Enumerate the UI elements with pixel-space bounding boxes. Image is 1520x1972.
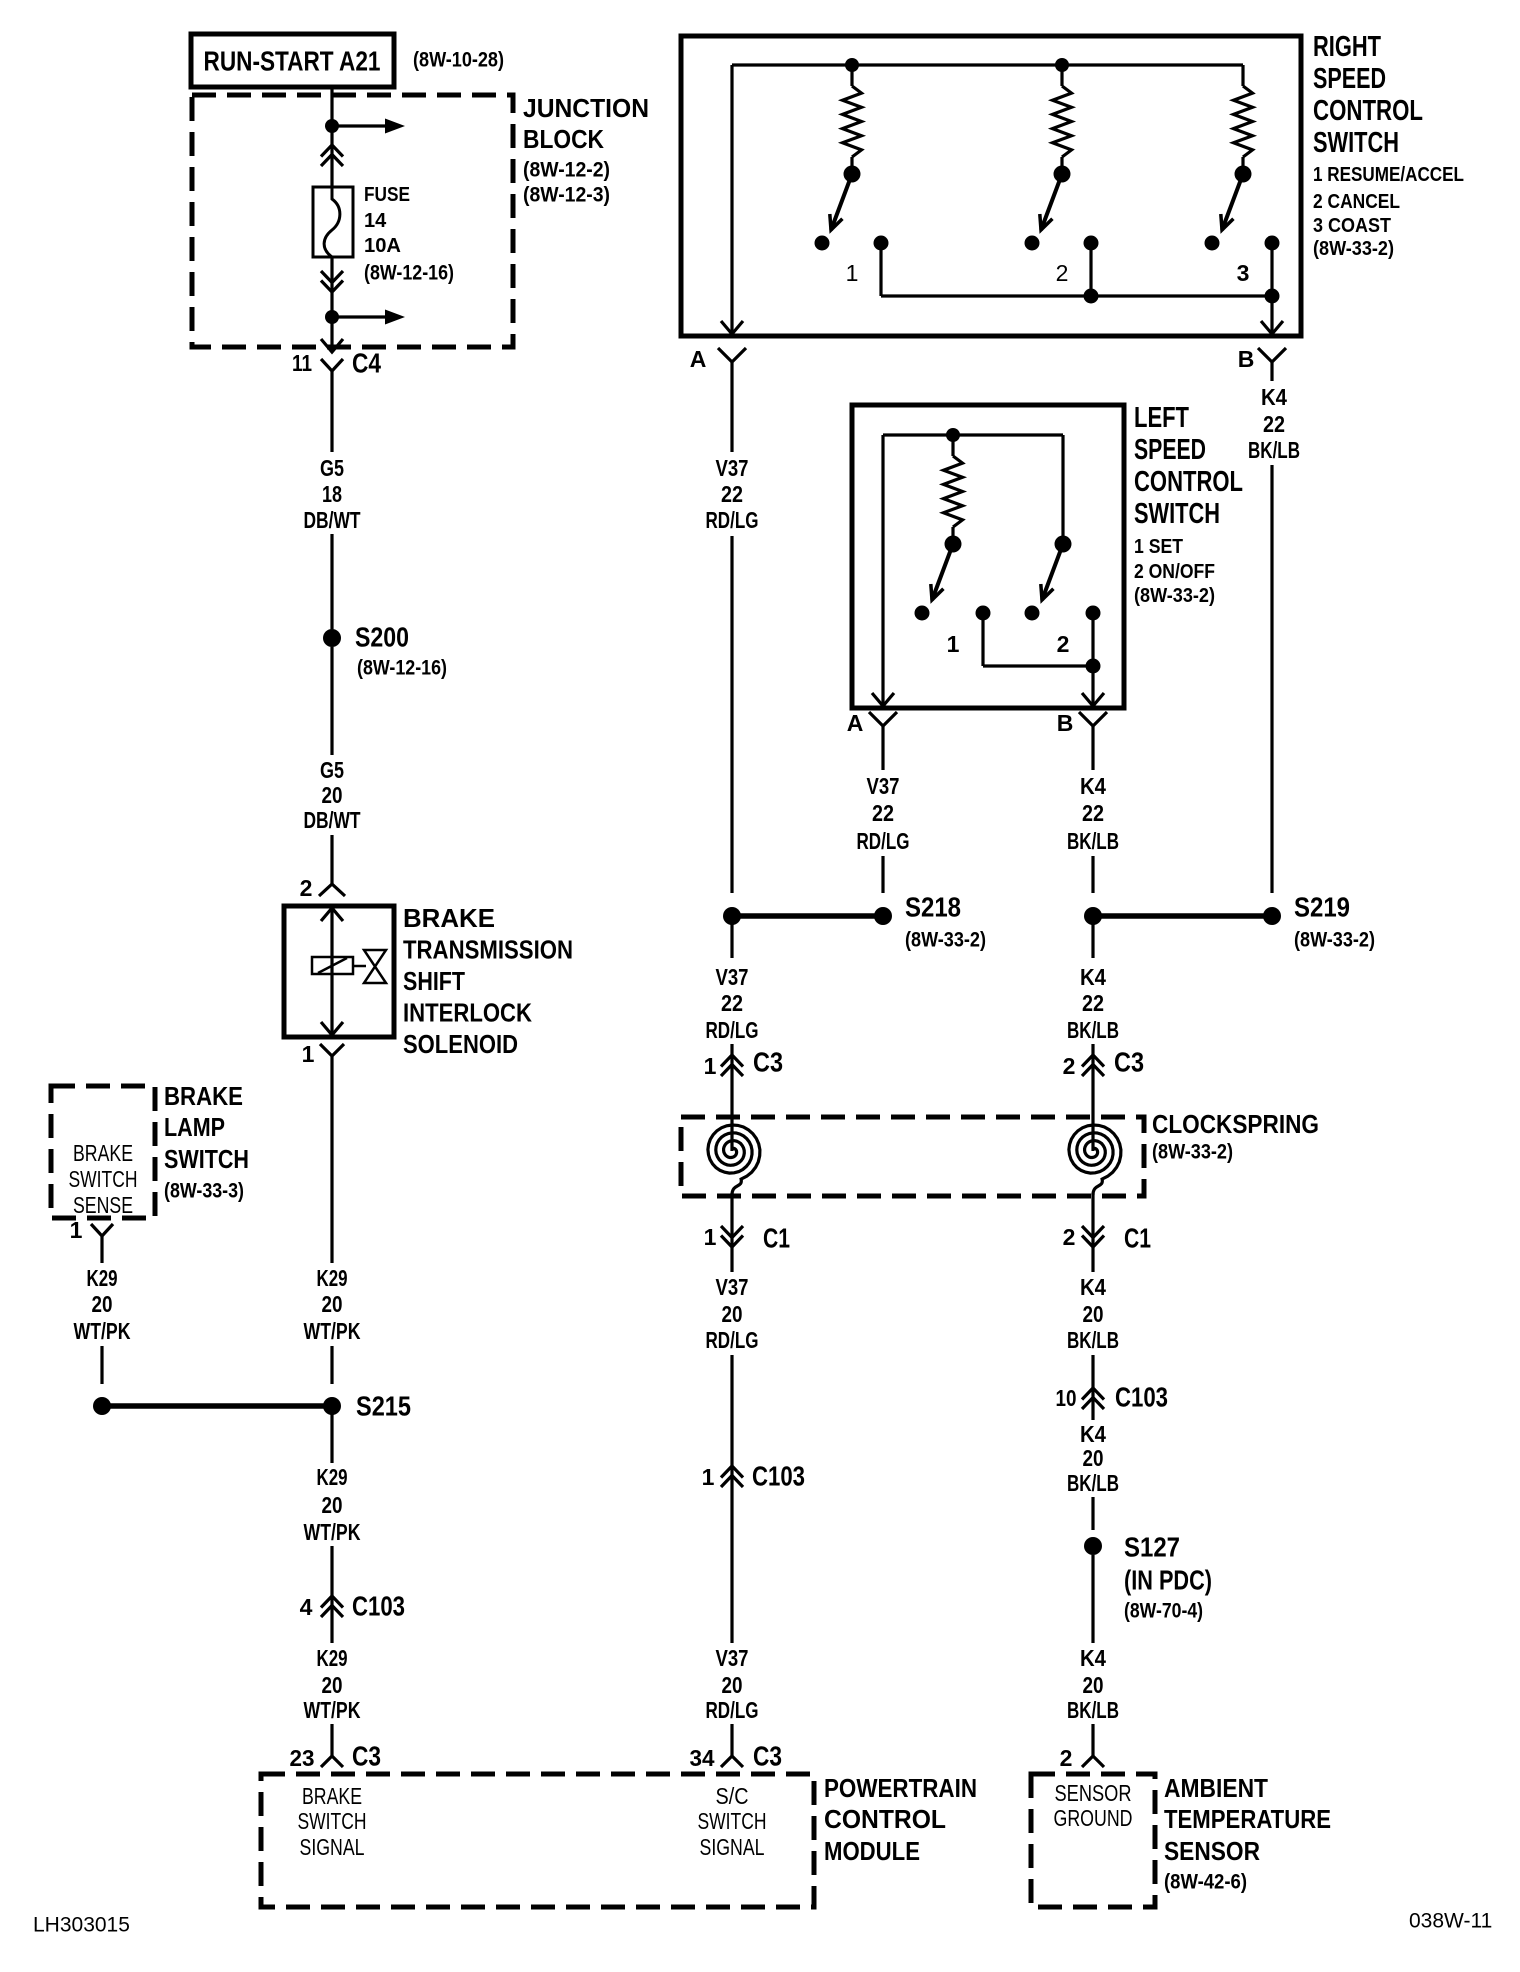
svg-text:BLOCK: BLOCK — [523, 124, 604, 154]
splice S219 — [1084, 907, 1102, 925]
wire — [100, 1254, 103, 1263]
resistor + switch COAST — [1241, 65, 1244, 86]
svg-text:(8W-12-2): (8W-12-2) — [523, 159, 610, 182]
connector box RUN-START A21 — [191, 34, 394, 87]
wire — [100, 1346, 103, 1384]
node: splice below fuse — [325, 310, 339, 324]
svg-text:SHIFT: SHIFT — [403, 966, 465, 996]
wire: right drop to B — [1270, 296, 1273, 334]
svg-text:WT/PK: WT/PK — [304, 1318, 361, 1344]
wire into clockspring coil — [730, 1044, 733, 1151]
svg-text:INTERLOCK: INTERLOCK — [403, 998, 532, 1028]
svg-text:K4: K4 — [1261, 384, 1287, 410]
wire — [1091, 1247, 1094, 1272]
svg-text:2: 2 — [300, 875, 313, 901]
arrow into A (left scs) — [872, 693, 894, 706]
splice S218 — [723, 907, 741, 925]
svg-text:1: 1 — [947, 631, 960, 657]
svg-text:V37: V37 — [716, 455, 749, 481]
svg-text:S215: S215 — [356, 1391, 411, 1422]
svg-text:A: A — [847, 710, 864, 736]
svg-text:K4: K4 — [1080, 1421, 1106, 1447]
svg-text:RUN-START A21: RUN-START A21 — [204, 46, 381, 77]
solenoid internal arrow up — [321, 908, 343, 921]
wire — [330, 534, 333, 629]
wire: coast contact drop — [1270, 243, 1273, 296]
svg-text:BRAKE: BRAKE — [403, 903, 495, 933]
svg-text:C3: C3 — [753, 1741, 782, 1772]
svg-text:BK/LB: BK/LB — [1067, 1017, 1119, 1043]
wire — [730, 916, 733, 958]
svg-text:2: 2 — [1063, 1053, 1076, 1079]
wire from left scs A to S218 — [881, 745, 884, 770]
wire — [330, 1724, 333, 1756]
svg-text:1: 1 — [70, 1217, 83, 1243]
svg-text:K4: K4 — [1080, 964, 1106, 990]
svg-text:C3: C3 — [753, 1047, 783, 1078]
resistor + switch CANCEL — [1055, 58, 1069, 72]
svg-text:20: 20 — [1083, 1301, 1104, 1327]
svg-text:SENSE: SENSE — [73, 1192, 133, 1218]
svg-text:CLOCKSPRING: CLOCKSPRING — [1152, 1109, 1319, 1139]
svg-text:20: 20 — [322, 782, 343, 808]
svg-text:(8W-33-2): (8W-33-2) — [1134, 585, 1215, 607]
svg-text:20: 20 — [92, 1291, 113, 1317]
svg-text:AMBIENT: AMBIENT — [1164, 1773, 1268, 1803]
svg-text:(IN PDC): (IN PDC) — [1124, 1565, 1212, 1596]
svg-text:RD/LG: RD/LG — [706, 1697, 759, 1723]
svg-text:18: 18 — [322, 481, 342, 507]
svg-text:C1: C1 — [1124, 1223, 1151, 1254]
svg-text:BRAKE: BRAKE — [73, 1140, 133, 1166]
svg-text:S219: S219 — [1294, 892, 1350, 923]
svg-text:BK/LB: BK/LB — [1248, 437, 1300, 463]
node: rail junction (left scs) — [1086, 659, 1101, 674]
svg-text:1: 1 — [846, 260, 859, 286]
svg-text:V37: V37 — [716, 1645, 749, 1671]
svg-text:BRAKE: BRAKE — [164, 1081, 243, 1111]
svg-text:MODULE: MODULE — [824, 1836, 920, 1866]
svg-text:G5: G5 — [320, 455, 344, 481]
wire: bottom rail (left scs) — [983, 664, 1093, 667]
svg-text:SWITCH: SWITCH — [1313, 127, 1399, 159]
wire: top bus — [732, 63, 1243, 66]
svg-text:S127: S127 — [1124, 1532, 1180, 1563]
svg-text:1 SET: 1 SET — [1134, 536, 1183, 558]
svg-text:20: 20 — [322, 1291, 343, 1317]
brake lamp switch (dashed box) — [51, 1086, 155, 1218]
svg-text:22: 22 — [721, 990, 743, 1016]
svg-text:(8W-33-3): (8W-33-3) — [164, 1180, 244, 1203]
powertrain control module (dashed box) — [261, 1774, 814, 1907]
svg-text:V37: V37 — [867, 773, 900, 799]
svg-text:SWITCH: SWITCH — [698, 1808, 767, 1834]
wire — [730, 536, 733, 893]
wire — [730, 1724, 733, 1756]
wire G5 segment — [330, 389, 333, 452]
svg-text:(8W-33-2): (8W-33-2) — [905, 929, 986, 952]
wire into clockspring coil — [1091, 1044, 1094, 1151]
svg-text:BK/LB: BK/LB — [1067, 1697, 1119, 1723]
svg-text:22: 22 — [872, 800, 894, 826]
svg-text:S200: S200 — [355, 622, 409, 653]
splice S127 — [1084, 1537, 1102, 1555]
svg-text:2: 2 — [1063, 1224, 1076, 1250]
svg-text:SENSOR: SENSOR — [1164, 1836, 1260, 1866]
svg-text:SWITCH: SWITCH — [69, 1166, 138, 1192]
svg-text:TEMPERATURE: TEMPERATURE — [1164, 1804, 1331, 1834]
svg-text:POWERTRAIN: POWERTRAIN — [824, 1773, 977, 1803]
svg-text:20: 20 — [722, 1672, 743, 1698]
svg-text:20: 20 — [1083, 1672, 1104, 1698]
clockspring coil (left) — [708, 1125, 760, 1195]
svg-text:C103: C103 — [1115, 1382, 1168, 1413]
svg-text:(8W-33-2): (8W-33-2) — [1294, 929, 1375, 952]
splice S215 — [93, 1397, 111, 1415]
svg-text:20: 20 — [322, 1672, 343, 1698]
svg-text:S/C: S/C — [716, 1783, 749, 1809]
wire — [330, 835, 333, 884]
wire: set contact drop — [981, 613, 984, 666]
svg-text:20: 20 — [1083, 1445, 1104, 1471]
wire through C103 pin 10 — [1091, 1355, 1094, 1420]
svg-text:C4: C4 — [352, 348, 381, 379]
svg-text:TRANSMISSION: TRANSMISSION — [403, 935, 573, 965]
wire through C103 — [330, 1546, 333, 1643]
svg-text:K29: K29 — [317, 1645, 348, 1671]
svg-text:S218: S218 — [905, 892, 961, 923]
svg-text:1: 1 — [302, 1041, 315, 1067]
node: rail junction (coast) — [1265, 289, 1280, 304]
wire — [1091, 1555, 1094, 1643]
arrow into A — [721, 321, 743, 334]
svg-text:K29: K29 — [87, 1265, 118, 1291]
svg-text:RIGHT: RIGHT — [1313, 31, 1381, 63]
svg-text:BRAKE: BRAKE — [302, 1783, 362, 1809]
svg-text:WT/PK: WT/PK — [304, 1519, 361, 1545]
svg-text:CONTROL: CONTROL — [1313, 95, 1423, 127]
svg-text:WT/PK: WT/PK — [74, 1318, 131, 1344]
svg-text:G5: G5 — [320, 757, 344, 783]
svg-text:22: 22 — [1082, 800, 1104, 826]
svg-text:C103: C103 — [752, 1461, 805, 1492]
svg-text:SPEED: SPEED — [1134, 434, 1206, 466]
wire from RUN-START A21 into junction block — [330, 87, 333, 126]
wire — [1091, 1497, 1094, 1530]
svg-text:C3: C3 — [1114, 1047, 1144, 1078]
svg-text:2 CANCEL: 2 CANCEL — [1313, 191, 1400, 213]
svg-text:4: 4 — [300, 1594, 313, 1620]
wire through connector chevrons to fuse — [330, 126, 333, 187]
wire: bottom rail — [881, 294, 1272, 297]
svg-text:C103: C103 — [352, 1591, 405, 1622]
svg-text:3 COAST: 3 COAST — [1313, 215, 1391, 237]
svg-text:SIGNAL: SIGNAL — [700, 1834, 765, 1860]
arrow: bus feed upper — [332, 124, 387, 127]
svg-text:C3: C3 — [352, 1741, 381, 1772]
svg-text:(8W-12-3): (8W-12-3) — [523, 184, 610, 207]
svg-text:SIGNAL: SIGNAL — [300, 1834, 365, 1860]
wire — [1091, 916, 1094, 958]
wire: left drop to A (left scs) — [881, 435, 884, 706]
svg-text:1: 1 — [702, 1464, 715, 1490]
svg-text:20: 20 — [322, 1492, 343, 1518]
svg-text:22: 22 — [721, 481, 743, 507]
svg-text:BK/LB: BK/LB — [1067, 828, 1119, 854]
svg-text:WT/PK: WT/PK — [304, 1697, 361, 1723]
svg-text:DB/WT: DB/WT — [304, 507, 361, 533]
wire: right drop to B (left scs) — [1091, 666, 1094, 706]
connector C4 pin 11 — [321, 339, 343, 352]
wire: cancel contact drop — [1089, 243, 1092, 296]
wire — [330, 1406, 333, 1463]
fuse 14 10A — [313, 187, 353, 257]
svg-text:1: 1 — [704, 1224, 717, 1250]
splice S200 — [323, 629, 341, 647]
junction block (dashed box) — [192, 95, 513, 347]
svg-text:038W-11: 038W-11 — [1409, 1910, 1492, 1933]
svg-text:1: 1 — [704, 1053, 717, 1079]
svg-text:K29: K29 — [317, 1265, 348, 1291]
svg-text:2: 2 — [1060, 1745, 1073, 1771]
svg-text:K4: K4 — [1080, 773, 1106, 799]
ambient temperature sensor (dashed box) — [1031, 1774, 1155, 1907]
svg-text:2 ON/OFF: 2 ON/OFF — [1134, 561, 1215, 583]
connector chevron inside junction block (up) — [321, 145, 343, 157]
svg-text:(8W-12-16): (8W-12-16) — [364, 262, 454, 285]
svg-text:10: 10 — [1056, 1385, 1077, 1411]
svg-text:2: 2 — [1056, 260, 1069, 286]
svg-text:JUNCTION: JUNCTION — [523, 93, 649, 123]
wire — [330, 647, 333, 755]
svg-text:(8W-10-28): (8W-10-28) — [413, 49, 504, 72]
svg-text:34: 34 — [690, 1745, 715, 1771]
switch ON/OFF — [1061, 435, 1064, 538]
svg-text:B: B — [1057, 710, 1074, 736]
wire: resume contact drop — [879, 243, 882, 296]
svg-text:SENSOR: SENSOR — [1055, 1780, 1132, 1806]
svg-text:1 RESUME/ACCEL: 1 RESUME/ACCEL — [1313, 164, 1464, 186]
svg-text:SWITCH: SWITCH — [1134, 498, 1220, 530]
wire: on/off contact drop — [1091, 613, 1094, 666]
svg-text:(8W-33-2): (8W-33-2) — [1152, 1141, 1233, 1164]
svg-text:RD/LG: RD/LG — [706, 1327, 759, 1353]
resistor + switch RESUME/ACCEL — [845, 58, 859, 72]
svg-text:SPEED: SPEED — [1313, 63, 1386, 95]
wire from left scs B to S219 — [1091, 745, 1094, 770]
svg-text:A: A — [690, 346, 707, 372]
solenoid internal wire — [330, 906, 333, 1037]
svg-text:B: B — [1238, 346, 1255, 372]
svg-text:2: 2 — [1057, 631, 1070, 657]
svg-text:CONTROL: CONTROL — [824, 1804, 946, 1834]
svg-text:10A: 10A — [364, 235, 401, 257]
svg-text:CONTROL: CONTROL — [1134, 466, 1243, 498]
svg-text:(8W-12-16): (8W-12-16) — [357, 657, 447, 680]
svg-text:LH303015: LH303015 — [33, 1914, 130, 1937]
wire — [330, 317, 333, 345]
svg-text:K4: K4 — [1080, 1645, 1106, 1671]
solenoid valve symbol — [364, 950, 386, 983]
svg-text:V37: V37 — [716, 964, 749, 990]
svg-text:BK/LB: BK/LB — [1067, 1327, 1119, 1353]
arrow: bus feed lower — [332, 315, 387, 318]
solenoid coil symbol — [312, 957, 353, 974]
wire from fuse through connector chevrons — [330, 257, 333, 317]
svg-text:LEFT: LEFT — [1134, 402, 1189, 434]
svg-text:RD/LG: RD/LG — [706, 507, 759, 533]
wire — [730, 1247, 733, 1272]
svg-text:K29: K29 — [317, 1464, 348, 1490]
svg-text:14: 14 — [364, 210, 387, 232]
wire: left drop to A — [730, 65, 733, 334]
arrow into B — [1261, 321, 1283, 334]
svg-text:22: 22 — [1263, 411, 1285, 437]
svg-text:K4: K4 — [1080, 1274, 1106, 1300]
left speed control switch (box) — [852, 405, 1124, 708]
svg-text:(8W-33-2): (8W-33-2) — [1313, 238, 1394, 260]
wire through C103 pin 1 — [730, 1355, 733, 1643]
node: splice above fuse — [325, 119, 339, 133]
wire V37 from right scs A — [730, 381, 733, 452]
wire — [730, 1193, 733, 1247]
svg-text:V37: V37 — [716, 1274, 749, 1300]
svg-text:LAMP: LAMP — [164, 1112, 225, 1142]
connector chevron inside junction block (down) — [321, 281, 343, 293]
solenoid internal arrow down — [321, 1022, 343, 1035]
svg-text:SOLENOID: SOLENOID — [403, 1029, 518, 1059]
wire: top bus (left scs) — [883, 433, 1063, 436]
node: rail junction (cancel) — [1084, 289, 1099, 304]
brake transmission shift interlock solenoid (box) — [284, 906, 394, 1037]
svg-text:RD/LG: RD/LG — [857, 828, 910, 854]
resistor + switch SET — [946, 428, 960, 442]
svg-text:FUSE: FUSE — [364, 184, 410, 206]
wire — [330, 1075, 333, 1263]
svg-text:SWITCH: SWITCH — [164, 1144, 249, 1174]
svg-text:23: 23 — [290, 1745, 315, 1771]
wire — [1270, 465, 1273, 893]
wire — [1091, 1193, 1094, 1247]
svg-text:(8W-70-4): (8W-70-4) — [1124, 1600, 1203, 1623]
svg-text:BK/LB: BK/LB — [1067, 1470, 1119, 1496]
svg-text:11: 11 — [292, 350, 312, 376]
svg-text:C1: C1 — [763, 1223, 790, 1254]
arrow into B (left scs) — [1082, 693, 1104, 706]
svg-text:3: 3 — [1237, 260, 1250, 286]
svg-text:22: 22 — [1082, 990, 1104, 1016]
right speed control switch (box) — [681, 36, 1301, 336]
svg-text:RD/LG: RD/LG — [706, 1017, 759, 1043]
wire — [330, 1346, 333, 1384]
svg-text:DB/WT: DB/WT — [304, 807, 361, 833]
clockspring coil (right) — [1069, 1125, 1121, 1195]
clockspring (dashed box) — [681, 1117, 1144, 1196]
svg-text:20: 20 — [722, 1301, 743, 1327]
svg-text:GROUND: GROUND — [1054, 1805, 1133, 1831]
wire — [1091, 1724, 1094, 1756]
svg-text:SWITCH: SWITCH — [298, 1808, 367, 1834]
svg-text:(8W-42-6): (8W-42-6) — [1164, 1871, 1247, 1894]
